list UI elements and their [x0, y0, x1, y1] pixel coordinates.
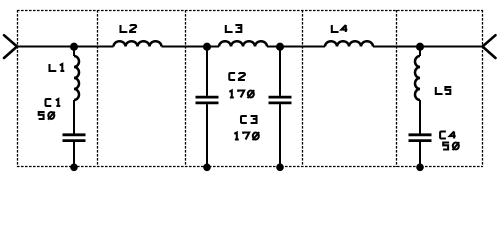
wire C4 to ground rail	[419, 142, 421, 166]
inductor L5	[415, 56, 420, 100]
label L4	[332, 25, 338, 32]
wire node4 to L5	[419, 47, 421, 57]
section divider dashed vertical 1	[17, 10, 19, 167]
wire input to L2	[17, 46, 114, 48]
wire L3 to L4	[267, 46, 325, 48]
section divider dashed top edge	[17, 10, 483, 12]
node junction top 4	[416, 43, 424, 51]
capacitor C4	[409, 135, 432, 141]
section divider dashed vertical 5	[396, 10, 398, 167]
section divider dashed vertical 6	[482, 10, 484, 167]
capacitor C3	[269, 97, 292, 103]
wire L2 to L3	[162, 46, 220, 48]
capacitor C1	[63, 135, 86, 141]
wire node1 to L1	[73, 47, 75, 57]
label L5	[436, 87, 442, 94]
wire L4 to output	[373, 46, 483, 48]
port P2 output terminal	[483, 35, 496, 58]
port P1 input terminal	[4, 35, 17, 58]
wire node2 to C2	[206, 47, 208, 96]
value 50 for C4	[443, 143, 449, 150]
label C1	[46, 99, 52, 106]
capacitor C2	[196, 97, 219, 103]
value 170 for C3	[234, 133, 239, 140]
value 170 for C2	[229, 91, 234, 98]
value 50 for C1	[39, 112, 45, 119]
label L2	[121, 25, 127, 32]
inductor L4	[325, 41, 373, 46]
section divider dashed bottom edge	[17, 166, 483, 168]
wire C2 to ground rail	[206, 104, 208, 166]
section divider dashed vertical 2	[97, 10, 99, 167]
node junction top 1	[70, 43, 78, 51]
inductor L3	[219, 41, 267, 46]
node junction top 2	[203, 43, 211, 51]
label C2	[229, 73, 235, 80]
inductor L1	[74, 56, 79, 100]
node ground dot 2	[203, 164, 211, 172]
section divider dashed vertical 4	[302, 10, 304, 167]
wire C3 to ground rail	[279, 104, 281, 166]
label C4	[440, 132, 446, 139]
node junction top 3	[276, 43, 284, 51]
wire L1 to C1	[73, 100, 75, 134]
node ground dot 4	[416, 164, 424, 172]
label C3	[241, 116, 247, 123]
section divider dashed vertical 3	[185, 10, 187, 167]
inductor L2	[114, 41, 162, 46]
label L3	[226, 25, 232, 32]
node ground dot 1	[70, 164, 78, 172]
label L1	[50, 64, 56, 71]
node ground dot 3	[276, 164, 284, 172]
wire C1 to ground rail	[73, 142, 75, 166]
wire node3 to C3	[279, 47, 281, 96]
wire L5 to C4	[419, 100, 421, 134]
